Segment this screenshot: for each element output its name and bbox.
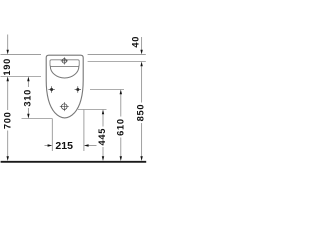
svg-text:445: 445 xyxy=(97,128,107,146)
svg-text:310: 310 xyxy=(23,89,33,107)
svg-text:700: 700 xyxy=(2,111,12,129)
svg-text:190: 190 xyxy=(2,58,12,76)
svg-text:850: 850 xyxy=(136,104,146,122)
svg-text:215: 215 xyxy=(55,140,73,152)
svg-text:610: 610 xyxy=(115,118,125,136)
svg-text:40: 40 xyxy=(130,36,140,48)
